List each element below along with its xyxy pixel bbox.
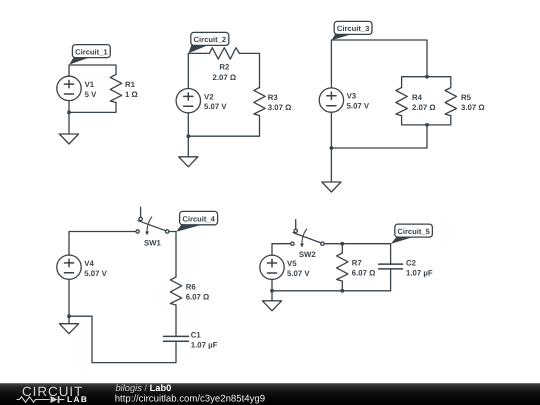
svg-text:1.07 µF: 1.07 µF <box>406 269 433 278</box>
svg-text:5 V: 5 V <box>85 90 98 99</box>
svg-text:Circuit_5: Circuit_5 <box>397 227 430 236</box>
svg-text:SW2: SW2 <box>299 250 317 259</box>
svg-text:R6: R6 <box>186 283 197 292</box>
svg-text:V3: V3 <box>347 92 357 101</box>
svg-text:6.07 Ω: 6.07 Ω <box>352 269 376 278</box>
svg-text:V2: V2 <box>204 92 214 101</box>
svg-text:Circuit_4: Circuit_4 <box>182 214 215 223</box>
svg-text:V4: V4 <box>84 259 94 268</box>
svg-text:5.07 V: 5.07 V <box>84 269 107 278</box>
svg-text:2.07 Ω: 2.07 Ω <box>412 103 436 112</box>
svg-text:C1: C1 <box>191 330 202 339</box>
svg-text:R2: R2 <box>219 63 230 72</box>
svg-text:SW1: SW1 <box>144 239 162 248</box>
svg-text:R7: R7 <box>352 259 362 268</box>
svg-text:R3: R3 <box>268 93 279 102</box>
svg-text:V1: V1 <box>85 80 95 89</box>
svg-text:6.07 Ω: 6.07 Ω <box>186 293 210 302</box>
svg-text:LAB: LAB <box>67 395 88 404</box>
svg-text:5.07 V: 5.07 V <box>287 269 310 278</box>
svg-text:bilogis / Lab0: bilogis / Lab0 <box>116 383 172 393</box>
svg-text:2.07 Ω: 2.07 Ω <box>213 73 237 82</box>
svg-text:R4: R4 <box>412 93 423 102</box>
svg-text:R5: R5 <box>461 93 472 102</box>
svg-text:3.07 Ω: 3.07 Ω <box>461 103 485 112</box>
svg-text:3.07 Ω: 3.07 Ω <box>268 103 292 112</box>
svg-text:1.07 µF: 1.07 µF <box>191 340 218 349</box>
svg-text:5.07 V: 5.07 V <box>347 102 370 111</box>
svg-text:Circuit_2: Circuit_2 <box>194 35 227 44</box>
svg-text:1 Ω: 1 Ω <box>125 90 138 99</box>
svg-text:R1: R1 <box>125 80 136 89</box>
svg-text:5.07 V: 5.07 V <box>204 102 227 111</box>
svg-text:Circuit_3: Circuit_3 <box>337 24 370 33</box>
svg-text:V5: V5 <box>287 259 297 268</box>
svg-text:http://circuitlab.com/c3ye2n85: http://circuitlab.com/c3ye2n85t4yg9 <box>115 393 265 404</box>
svg-text:C2: C2 <box>406 259 417 268</box>
svg-text:Circuit_1: Circuit_1 <box>75 47 108 56</box>
